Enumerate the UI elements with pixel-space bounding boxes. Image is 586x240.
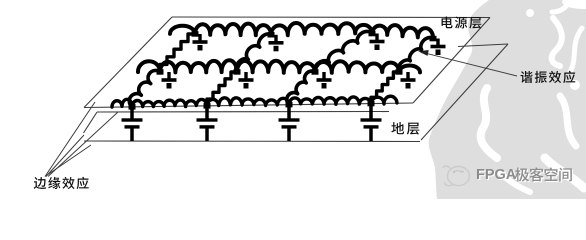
svg-text:FPGA: FPGA <box>476 167 517 183</box>
